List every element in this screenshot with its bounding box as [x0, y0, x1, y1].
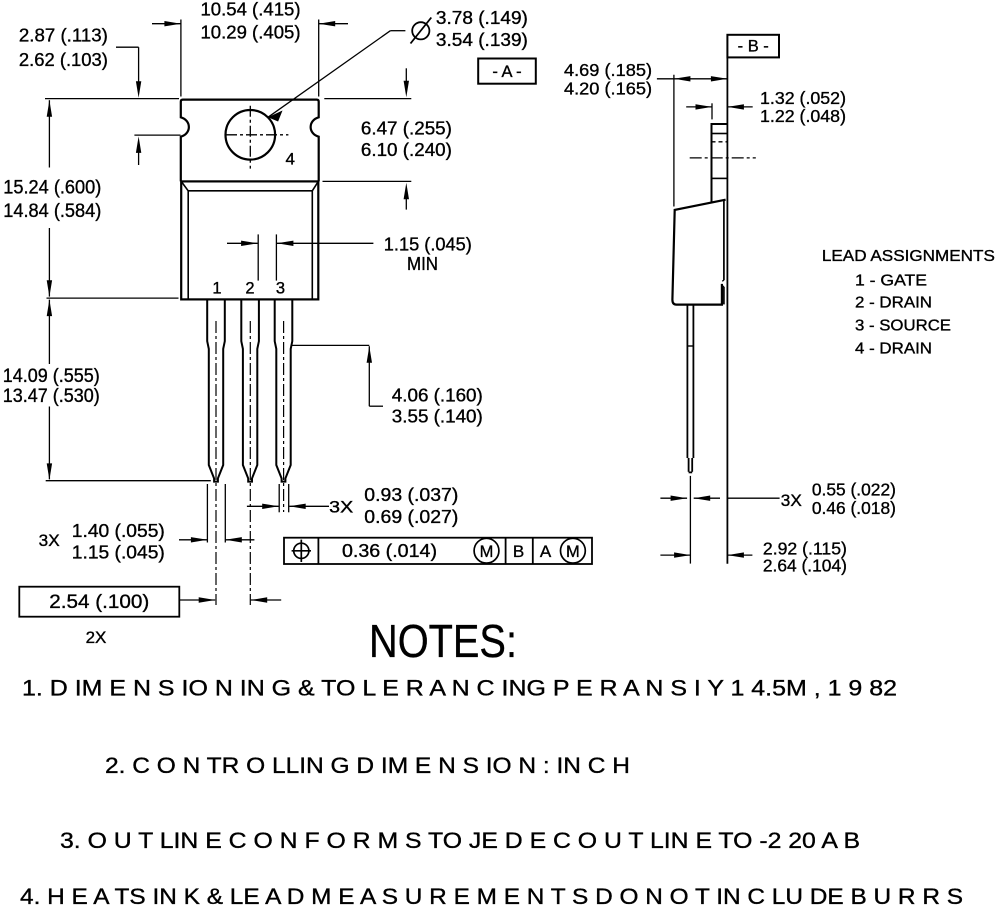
hole centerline vertical	[249, 106, 251, 169]
svg-text:4: 4	[286, 150, 295, 169]
body bottom left extension line	[47, 297, 179, 299]
dim 1.15 arrows	[227, 242, 258, 244]
dim 6.47 arrows	[405, 68, 407, 81]
svg-text:3. O U T LIN E C O N F O R M S: 3. O U T LIN E C O N F O R M S TO JE D E…	[60, 828, 860, 853]
svg-text:10.29 (.405): 10.29 (.405)	[201, 23, 301, 43]
svg-text:4.69 (.185): 4.69 (.185)	[564, 60, 652, 80]
side tab hole hidden line	[712, 141, 728, 143]
svg-text:A: A	[540, 542, 552, 561]
front view tab (heatsink) outline	[181, 100, 319, 182]
svg-text:B: B	[513, 542, 524, 561]
svg-text:14.84 (.584): 14.84 (.584)	[3, 201, 101, 222]
svg-text:0.36 (.014): 0.36 (.014)	[342, 541, 437, 561]
dim 4.06 dimension line	[367, 346, 372, 363]
lead 3 centerline	[283, 321, 285, 512]
side view lead outline	[686, 305, 688, 458]
svg-text:3 - SOURCE: 3 - SOURCE	[855, 318, 951, 335]
svg-text:4. H E A TS IN K & LE A D M E: 4. H E A TS IN K & LE A D M E A S U R E …	[20, 884, 963, 909]
svg-text:1.15 (.045): 1.15 (.045)	[384, 235, 472, 255]
svg-text:1.15 (.045): 1.15 (.045)	[72, 542, 165, 562]
hole centerline horizontal	[226, 134, 288, 136]
svg-text:- B -: - B -	[738, 38, 769, 56]
svg-text:LEAD ASSIGNMENTS: LEAD ASSIGNMENTS	[822, 248, 995, 265]
svg-text:6.10 (.240): 6.10 (.240)	[361, 140, 452, 160]
svg-text:2X: 2X	[86, 628, 107, 647]
side hole centerline	[690, 157, 756, 159]
hole diameter leader	[268, 31, 391, 118]
svg-text:MIN: MIN	[407, 254, 438, 274]
dim 2.54 arrows	[179, 599, 215, 601]
dim 1.15 extension ticks	[257, 234, 259, 280]
body top right extension line	[323, 180, 412, 182]
svg-text:0.46 (.018): 0.46 (.018)	[812, 498, 896, 518]
dim 1.32 tick	[711, 103, 713, 119]
dim 15.24 dimension line	[47, 100, 52, 117]
svg-text:NOTES:: NOTES:	[369, 615, 517, 667]
dim 2.54 box	[19, 587, 179, 617]
svg-text:1.22 (.048): 1.22 (.048)	[760, 106, 846, 126]
svg-text:0.93 (.037): 0.93 (.037)	[364, 485, 458, 505]
side view tab outline	[712, 124, 728, 202]
svg-text:3.78 (.149): 3.78 (.149)	[436, 8, 528, 28]
datum plane B line	[726, 57, 728, 563]
dim 10.54 extension lines	[180, 20, 182, 97]
svg-text:4.06 (.160): 4.06 (.160)	[392, 386, 483, 406]
tab top right extension line	[324, 98, 411, 100]
side lead extension line	[689, 476, 691, 564]
svg-text:3.54 (.139): 3.54 (.139)	[436, 30, 528, 50]
svg-text:1. D IM E N S IO N IN G & TO L: 1. D IM E N S IO N IN G & TO L E R A N C…	[22, 676, 897, 701]
svg-text:15.24 (.600): 15.24 (.600)	[3, 177, 101, 198]
lead 1 centerline	[215, 321, 217, 605]
svg-text:M: M	[480, 543, 494, 561]
svg-text:4.20 (.165): 4.20 (.165)	[564, 79, 652, 99]
side view body outline	[672, 200, 725, 305]
svg-text:4 - DRAIN: 4 - DRAIN	[855, 340, 932, 357]
lead tip extension line	[46, 480, 211, 482]
svg-text:14.09 (.555): 14.09 (.555)	[3, 366, 100, 387]
lead 2 outline	[241, 299, 259, 481]
dim 4.69 arrows	[657, 78, 728, 80]
frame M modifier 2	[561, 538, 586, 563]
dim 4.06 extension line	[291, 344, 369, 346]
svg-text:6.47 (.255): 6.47 (.255)	[361, 119, 452, 139]
svg-text:10.54 (.415): 10.54 (.415)	[201, 0, 301, 19]
svg-text:3X: 3X	[39, 531, 60, 550]
svg-text:2.62 (.103): 2.62 (.103)	[19, 50, 108, 70]
svg-text:0.69 (.027): 0.69 (.027)	[364, 507, 458, 527]
lead 1 width extension lines	[206, 484, 208, 543]
svg-text:2. C O N TR O LLIN G D IM E N: 2. C O N TR O LLIN G D IM E N S IO N : I…	[105, 753, 630, 778]
dim 1.32 arrows	[686, 106, 712, 108]
feature control frame box	[284, 538, 592, 564]
svg-text:1.32 (.052): 1.32 (.052)	[760, 88, 846, 108]
svg-text:1.40 (.055): 1.40 (.055)	[72, 521, 165, 541]
mounting hole	[226, 110, 276, 160]
dim 10.54 arrows	[152, 23, 181, 25]
dim 0.93 arrows	[247, 505, 279, 507]
svg-text:2.54 (.100): 2.54 (.100)	[49, 592, 149, 613]
dim 4.69 extension line	[673, 75, 675, 207]
svg-text:- A -: - A -	[492, 63, 521, 81]
dim 2.92 arrows	[660, 554, 690, 556]
svg-text:1 - GATE: 1 - GATE	[855, 272, 927, 289]
svg-text:2.64 (.104): 2.64 (.104)	[763, 556, 847, 576]
dim 0.55 arrows	[660, 497, 687, 499]
side tab line	[712, 177, 728, 179]
svg-text:M: M	[566, 543, 580, 561]
svg-text:2.87 (.113): 2.87 (.113)	[19, 26, 108, 46]
datum A box	[478, 59, 536, 84]
lead 3 width extension lines	[278, 484, 280, 512]
svg-text:3.55 (.140): 3.55 (.140)	[392, 406, 483, 426]
molded body outer outline	[181, 181, 318, 299]
side tab back strip	[723, 200, 725, 280]
dim 2.87 lower arrow	[136, 136, 141, 153]
dim 2.87 leader	[116, 46, 139, 48]
svg-text:3: 3	[276, 280, 285, 298]
svg-text:0.55 (.022): 0.55 (.022)	[812, 479, 896, 499]
svg-text:3X: 3X	[329, 498, 353, 517]
svg-text:3X: 3X	[781, 492, 802, 510]
svg-text:13.47 (.530): 13.47 (.530)	[3, 386, 100, 407]
tab top left extension line	[45, 98, 179, 100]
dim 14.09 dimension line	[47, 300, 52, 317]
lead 1 outline	[207, 299, 225, 481]
dim 1.40 arrows	[179, 539, 207, 541]
lead 3 outline	[275, 299, 293, 481]
frame M modifier 1	[474, 538, 499, 563]
lead 2 centerline	[249, 321, 251, 605]
diameter symbol	[412, 22, 429, 39]
svg-text:2: 2	[245, 280, 254, 298]
svg-text:2 - DRAIN: 2 - DRAIN	[855, 295, 932, 312]
datum B box	[727, 35, 779, 58]
body bevel inner lines	[181, 181, 318, 299]
position tolerance symbol	[294, 543, 309, 558]
hole center left extension line	[134, 134, 180, 136]
svg-text:1: 1	[212, 280, 221, 298]
